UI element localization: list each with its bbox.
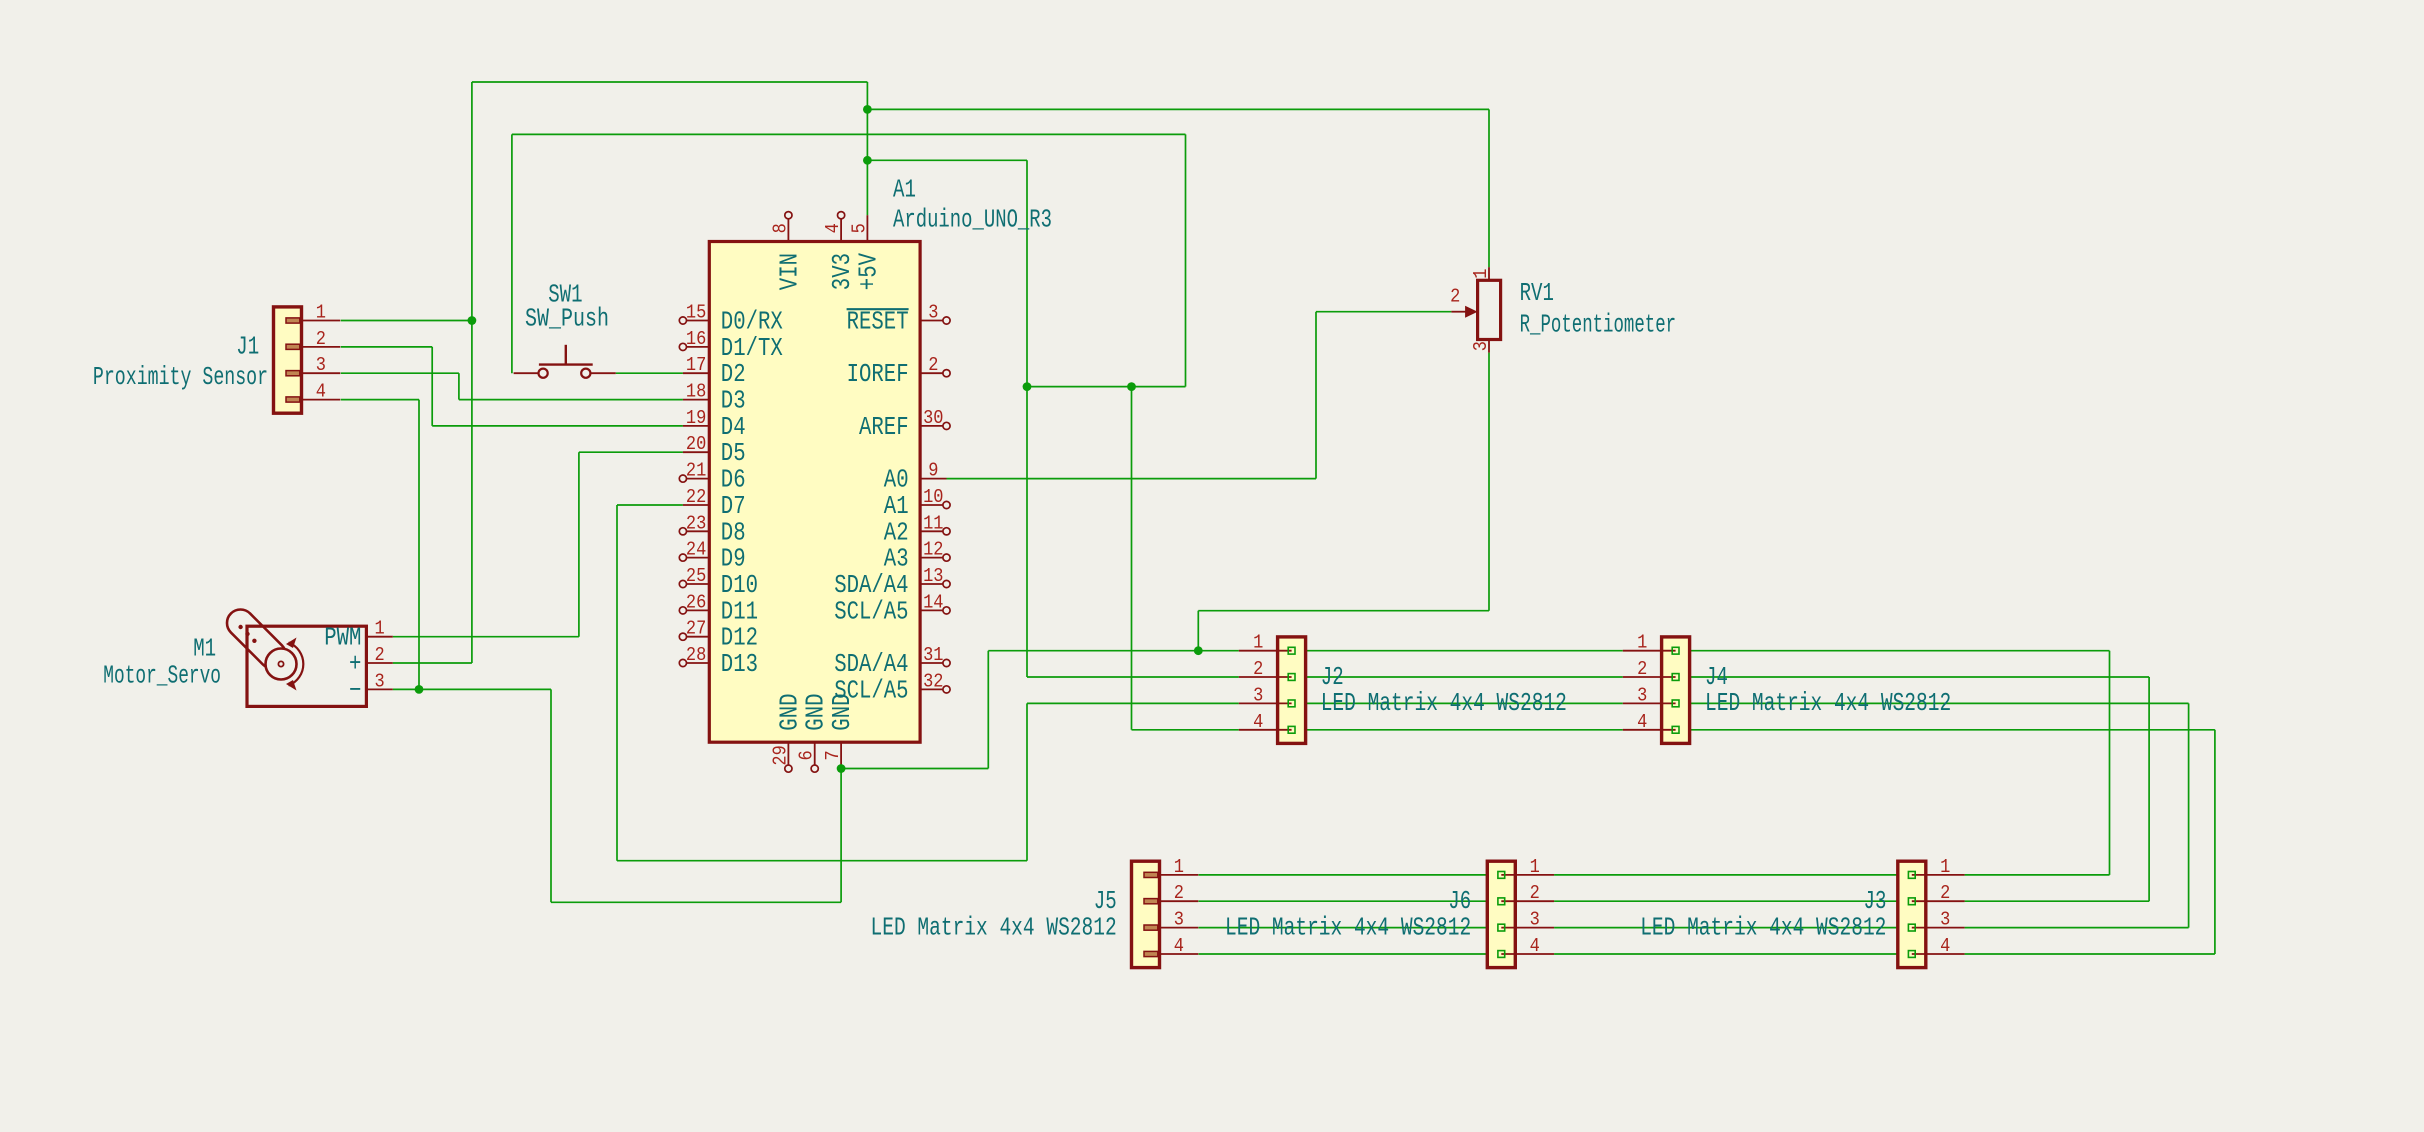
svg-text:3: 3 [316, 354, 326, 376]
svg-text:SDA/A4: SDA/A4 [834, 650, 908, 679]
svg-text:D13: D13 [721, 650, 758, 679]
svg-text:GND: GND [775, 694, 804, 731]
connector J3 body [1898, 861, 1926, 967]
Arduino pin SDA/A4 (13) [920, 583, 943, 585]
wire right bus vertical 2 [2148, 677, 2150, 901]
Arduino pin D0/RX (15) [686, 320, 709, 322]
connector J5 body [1132, 861, 1160, 967]
wire right bus vertical 3 [2188, 703, 2190, 927]
wire +5V vertical at Arduino +5V pin [866, 82, 868, 215]
svg-text:2: 2 [316, 328, 326, 350]
J4 pin 4 [1623, 729, 1676, 731]
junction +5V at right branch [863, 156, 872, 165]
wire GND row1 horizontal to J2 pin1 [988, 650, 1239, 652]
svg-text:D6: D6 [721, 466, 746, 495]
svg-text:2: 2 [1940, 882, 1950, 904]
svg-text:R_Potentiometer: R_Potentiometer [1520, 310, 1677, 339]
wire SW1 feed horizontal [512, 133, 1186, 135]
J5 pin 2 [1146, 900, 1199, 902]
servo arm icon [221, 604, 291, 674]
J6 pin 1 [1501, 874, 1554, 876]
svg-text:D12: D12 [721, 624, 758, 653]
svg-text:26: 26 [686, 591, 706, 613]
wire mid node horizontal [1027, 386, 1186, 388]
svg-text:11: 11 [923, 512, 943, 534]
svg-text:19: 19 [686, 407, 706, 429]
svg-text:LED Matrix 4x4 WS2812: LED Matrix 4x4 WS2812 [871, 913, 1117, 942]
wire GND riser vertical [550, 689, 552, 902]
svg-text:VIN: VIN [775, 253, 804, 290]
Arduino pin IOREF (2) [920, 372, 943, 374]
svg-text:9: 9 [928, 460, 938, 482]
wire drop to J2 pin1 [1197, 611, 1199, 651]
Arduino pin SDA/A4 (31) [920, 662, 943, 664]
wire GND7 junction right [841, 768, 988, 770]
svg-text:J3: J3 [1864, 887, 1887, 916]
svg-text:SDA/A4: SDA/A4 [834, 571, 908, 600]
svg-text:30: 30 [923, 407, 943, 429]
wire RV1 pin1 vertical [1488, 109, 1490, 267]
RV1 pin 3 [1488, 340, 1490, 353]
wire GND vertical to row1 [987, 651, 989, 769]
svg-text:23: 23 [686, 512, 706, 534]
J2 pin 3 [1239, 702, 1292, 704]
Arduino pin D9 (24) [686, 557, 709, 559]
svg-text:4: 4 [1253, 711, 1263, 733]
svg-text:+5V: +5V [854, 253, 883, 291]
wire J4 pin4 to right bus [1676, 729, 2215, 731]
svg-text:15: 15 [686, 302, 706, 324]
wire GND7 vertical down [840, 769, 842, 903]
junction mid node right [1127, 382, 1136, 391]
Arduino pin D11 (26) [686, 609, 709, 611]
wire J2 pin2 feed vertical [1026, 387, 1028, 677]
wire J2 pin2 to J4 [1292, 676, 1623, 678]
Arduino pin D10 (25) [686, 583, 709, 585]
svg-text:D9: D9 [721, 545, 746, 574]
wire +5V left vertical [471, 82, 473, 663]
J1 pin 3 [288, 372, 341, 374]
wire J5 pin2 to J6 [1199, 900, 1502, 902]
svg-text:A2: A2 [884, 518, 909, 547]
svg-text:32: 32 [923, 670, 943, 692]
wire J5 pin1 to J6 [1199, 874, 1502, 876]
wire J5 pin3 to J6 [1199, 927, 1502, 929]
svg-text:Motor_Servo: Motor_Servo [103, 662, 221, 691]
wire SW1 feed vertical [511, 134, 513, 373]
wire D7 riser to J2 pin3 [1026, 703, 1028, 860]
servo rotation arrow [289, 643, 304, 686]
svg-text:Arduino_UNO_R3: Arduino_UNO_R3 [893, 205, 1052, 234]
wire J1 pin4 horizontal [341, 399, 419, 401]
junction mid node left [1023, 382, 1032, 391]
svg-text:7: 7 [822, 750, 844, 760]
J6 pin 2 [1501, 900, 1554, 902]
Arduino pin D13 (28) [686, 662, 709, 664]
svg-text:J5: J5 [1094, 887, 1117, 916]
J1 pin 4 [288, 399, 341, 401]
svg-text:2: 2 [1174, 882, 1184, 904]
J3 pin 3 [1912, 927, 1965, 929]
svg-text:13: 13 [923, 565, 943, 587]
J6 pin 4 [1501, 953, 1554, 955]
J2 pin 2 [1239, 676, 1292, 678]
wire J1 pin3 horizontal [341, 372, 459, 374]
wire J3 pin4 to right bus [1965, 953, 2215, 955]
wire mid corner up [1185, 134, 1187, 386]
Arduino pin D1/TX (16) [686, 346, 709, 348]
svg-text:3: 3 [1253, 684, 1263, 706]
wire right bus vertical 1 [2109, 651, 2111, 875]
svg-text:M1: M1 [193, 635, 216, 664]
svg-text:A1: A1 [893, 176, 916, 205]
svg-text:LED Matrix 4x4 WS2812: LED Matrix 4x4 WS2812 [1640, 913, 1886, 942]
wire J1 pin3 jog vertical [458, 373, 460, 399]
svg-text:Proximity Sensor: Proximity Sensor [93, 363, 268, 392]
wire RV1 wiper horizontal [1316, 311, 1451, 313]
J5 pin 4 [1146, 953, 1199, 955]
wire D7 bottom horizontal [617, 860, 1027, 862]
wire J2 pin2 feed horizontal [1027, 676, 1239, 678]
wire J5 pin4 to J6 [1199, 953, 1502, 955]
Arduino pin A3 (12) [920, 557, 943, 559]
svg-text:PWM: PWM [324, 624, 361, 653]
svg-text:4: 4 [1940, 935, 1950, 957]
Arduino pin GND (7) [840, 742, 842, 768]
svg-text:AREF: AREF [859, 413, 909, 442]
wire J3 pin3 to right bus [1965, 927, 2189, 929]
svg-text:1: 1 [1530, 856, 1540, 878]
J4 pin 2 [1623, 676, 1676, 678]
svg-text:25: 25 [686, 565, 706, 587]
svg-text:10: 10 [923, 486, 943, 508]
wire +5V to RV1 pin1 horizontal [867, 108, 1489, 110]
svg-text:24: 24 [686, 539, 706, 561]
svg-text:LED Matrix 4x4 WS2812: LED Matrix 4x4 WS2812 [1225, 913, 1471, 942]
svg-text:4: 4 [1174, 935, 1184, 957]
RV1 wiper pin 2 arrow [1451, 311, 1466, 313]
servo arm dots [238, 625, 242, 629]
svg-text:D11: D11 [721, 597, 758, 626]
svg-text:2: 2 [1253, 658, 1263, 680]
switch SW1 [514, 372, 539, 374]
J1 pin 2 [288, 346, 341, 348]
svg-text:1: 1 [1174, 856, 1184, 878]
svg-text:D5: D5 [721, 439, 746, 468]
wire vertical to mid node [1026, 160, 1028, 386]
svg-text:17: 17 [686, 354, 706, 376]
svg-text:4: 4 [1637, 711, 1647, 733]
svg-text:3: 3 [1470, 341, 1492, 351]
svg-text:18: 18 [686, 381, 706, 403]
svg-text:RESET: RESET [847, 308, 909, 337]
Arduino pin VIN (8) [787, 218, 789, 241]
Arduino pin A1 (10) [920, 504, 943, 506]
wire J2 pin4 feed vertical [1131, 387, 1133, 730]
wire to Arduino D4 [432, 425, 683, 427]
svg-text:3: 3 [928, 302, 938, 324]
svg-text:4: 4 [822, 223, 844, 233]
Arduino pin D8 (23) [686, 530, 709, 532]
svg-text:D2: D2 [721, 360, 746, 389]
wire servo PWM vertical [578, 452, 580, 637]
svg-text:21: 21 [686, 460, 706, 482]
svg-text:D10: D10 [721, 571, 758, 600]
svg-text:3: 3 [1637, 684, 1647, 706]
svg-text:2: 2 [1450, 286, 1460, 308]
RV1 pin 1 [1488, 267, 1490, 280]
wire J3 pin1 to right bus [1965, 874, 2110, 876]
J3 pin 2 [1912, 900, 1965, 902]
svg-text:SW_Push: SW_Push [525, 305, 609, 334]
servo M1 pin − (3) [366, 688, 392, 690]
wire J6 pin4 to J3 [1554, 953, 1912, 955]
svg-text:16: 16 [686, 328, 706, 350]
svg-text:31: 31 [923, 644, 943, 666]
Arduino pin D12 (27) [686, 636, 709, 638]
wire GND bottom horizontal [551, 901, 841, 903]
svg-text:14: 14 [923, 591, 943, 613]
wire +5V branch right [867, 159, 1027, 161]
svg-text:29: 29 [769, 745, 791, 765]
svg-text:D8: D8 [721, 518, 746, 547]
svg-text:D4: D4 [721, 413, 746, 442]
svg-text:LED Matrix 4x4 WS2812: LED Matrix 4x4 WS2812 [1321, 689, 1567, 718]
wire servo minus stub [393, 688, 419, 690]
svg-text:5: 5 [848, 223, 870, 233]
svg-text:J6: J6 [1448, 887, 1471, 916]
Arduino pin GND (29) [787, 742, 789, 765]
wire J1 pin2 horizontal [341, 346, 432, 348]
connector J2 body [1278, 637, 1306, 744]
wire J6 pin3 to J3 [1554, 927, 1912, 929]
svg-text:1: 1 [1470, 269, 1492, 279]
Arduino pin SCL/A5 (32) [920, 688, 943, 690]
svg-text:RV1: RV1 [1520, 279, 1554, 308]
Arduino pin 3V3 (4) [840, 218, 842, 241]
wire SW1 to Arduino D2 [616, 372, 683, 374]
servo rotor circle [266, 649, 297, 680]
svg-text:22: 22 [686, 486, 706, 508]
svg-text:D1/TX: D1/TX [721, 334, 783, 363]
J1 pin 1 [288, 320, 341, 322]
junction +5V / J1 pin1 [468, 316, 477, 325]
junction servo minus / GND [415, 685, 424, 694]
svg-text:8: 8 [769, 223, 791, 233]
connector J1 body [274, 307, 302, 413]
J3 pin 4 [1912, 953, 1965, 955]
svg-text:2: 2 [1637, 658, 1647, 680]
servo M1 pin PWM (1) [366, 636, 392, 638]
Arduino pin RESET (3) [920, 320, 943, 322]
wire J2 pin3 to J4 [1292, 702, 1623, 704]
svg-text:20: 20 [686, 433, 706, 455]
svg-text:A1: A1 [884, 492, 909, 521]
svg-text:3V3: 3V3 [828, 253, 857, 290]
Arduino A1 body [709, 242, 920, 743]
wire servo + pin to +5V vertical [393, 662, 472, 664]
svg-text:J1: J1 [236, 333, 259, 362]
J3 pin 1 [1912, 874, 1965, 876]
wire Arduino D7 horizontal [617, 504, 683, 506]
svg-text:3: 3 [1940, 909, 1950, 931]
wire J2 pin4 feed horizontal [1132, 729, 1239, 731]
junction +5V at RV1 branch [863, 105, 872, 114]
wire Arduino D5 horizontal [579, 451, 683, 453]
J4 pin 3 [1623, 702, 1676, 704]
wire RV1 pin3 vertical [1488, 353, 1490, 611]
svg-text:4: 4 [1530, 935, 1540, 957]
wire J1 pin1 to +5V vertical [341, 320, 472, 322]
Arduino pin D6 (21) [686, 478, 709, 480]
svg-text:GND: GND [802, 694, 831, 731]
svg-text:12: 12 [923, 539, 943, 561]
svg-text:2: 2 [1530, 882, 1540, 904]
wire J4 pin3 to right bus [1676, 702, 2189, 704]
Arduino pin AREF (30) [920, 425, 943, 427]
J4 pin 1 [1623, 650, 1676, 652]
wire J1 pin4 vertical to servo minus [418, 400, 420, 690]
svg-text:LED Matrix 4x4 WS2812: LED Matrix 4x4 WS2812 [1705, 689, 1951, 718]
Arduino pin D2 (17) [683, 372, 709, 374]
svg-text:27: 27 [686, 618, 706, 640]
J6 pin 3 [1501, 927, 1554, 929]
wire right bus vertical 4 [2214, 730, 2216, 954]
potentiometer RV1 body [1478, 280, 1501, 339]
connector J4 body [1662, 637, 1690, 744]
svg-text:J2: J2 [1321, 663, 1344, 692]
wire J2 pin4 to J4 [1292, 729, 1623, 731]
wire J4 pin2 to right bus [1676, 676, 2150, 678]
wire J3 pin2 to right bus [1965, 900, 2150, 902]
svg-text:GND: GND [828, 694, 857, 731]
svg-text:2: 2 [928, 354, 938, 376]
svg-text:3: 3 [1530, 909, 1540, 931]
connector J6 body [1487, 861, 1515, 967]
Arduino pin D7 (22) [683, 504, 709, 506]
svg-text:28: 28 [686, 644, 706, 666]
J5 pin 1 [1146, 874, 1199, 876]
svg-text:D7: D7 [721, 492, 746, 521]
svg-text:J4: J4 [1705, 663, 1728, 692]
Arduino pin D5 (20) [683, 451, 709, 453]
svg-text:3: 3 [1174, 909, 1184, 931]
svg-text:1: 1 [1253, 632, 1263, 654]
Arduino pin +5V (5) [866, 215, 868, 241]
wire servo PWM horizontal [393, 636, 579, 638]
wire J2 pin3 horizontal [1027, 702, 1239, 704]
wire +5V top horizontal [472, 81, 868, 83]
motor servo M1 body [247, 626, 366, 706]
svg-text:2: 2 [375, 644, 385, 666]
servo M1 pin + (2) [366, 662, 392, 664]
wire Arduino A0 horizontal [947, 478, 1317, 480]
wire RV1 pin3 horizontal [1198, 610, 1489, 612]
svg-text:1: 1 [316, 302, 326, 324]
wire J6 pin2 to J3 [1554, 900, 1912, 902]
svg-text:A0: A0 [884, 466, 909, 495]
svg-text:−: − [349, 676, 361, 705]
Arduino pin D3 (18) [683, 399, 709, 401]
wire J4 pin1 to right bus [1676, 650, 2110, 652]
svg-text:D0/RX: D0/RX [721, 308, 783, 337]
junction J2 pin1 node [1194, 646, 1203, 655]
wire D7 jog vertical [616, 505, 618, 861]
svg-text:1: 1 [1637, 632, 1647, 654]
Arduino pin A2 (11) [920, 530, 943, 532]
svg-text:IOREF: IOREF [847, 360, 909, 389]
svg-text:6: 6 [796, 750, 818, 760]
svg-text:A3: A3 [884, 545, 909, 574]
Arduino pin GND (6) [814, 742, 816, 765]
Arduino pin SCL/A5 (14) [920, 609, 943, 611]
wire to Arduino D3 [459, 399, 683, 401]
J2 pin 4 [1239, 729, 1292, 731]
svg-text:SCL/A5: SCL/A5 [834, 597, 908, 626]
wire A0 riser [1315, 312, 1317, 479]
wire J6 pin1 to J3 [1554, 874, 1912, 876]
svg-text:D3: D3 [721, 387, 746, 416]
Arduino pin A0 (9) [920, 478, 946, 480]
svg-text:+: + [349, 650, 361, 679]
junction GND at Arduino pin7 [837, 764, 846, 773]
svg-text:3: 3 [375, 670, 385, 692]
svg-text:1: 1 [1940, 856, 1950, 878]
wire servo minus to GND riser [419, 688, 551, 690]
svg-text:4: 4 [316, 381, 326, 403]
wire J2 pin1 to J4 [1292, 650, 1623, 652]
J5 pin 3 [1146, 927, 1199, 929]
svg-text:1: 1 [375, 618, 385, 640]
Arduino pin D4 (19) [683, 425, 709, 427]
wire J1 pin2 jog vertical [431, 347, 433, 426]
J2 pin 1 [1239, 650, 1292, 652]
